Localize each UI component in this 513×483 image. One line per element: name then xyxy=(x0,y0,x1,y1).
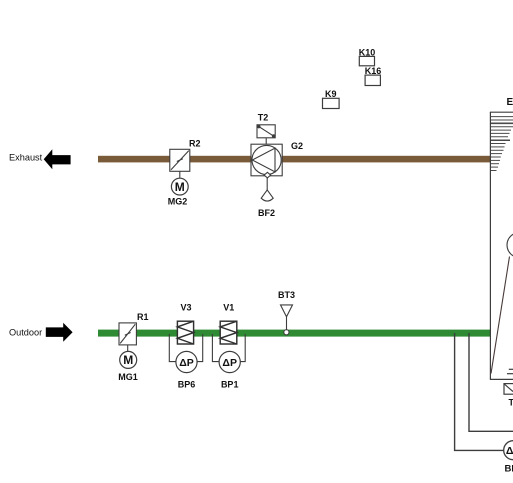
svg-text:ΔP: ΔP xyxy=(222,357,237,369)
svg-text:R2: R2 xyxy=(189,139,201,149)
svg-text:G2: G2 xyxy=(291,141,303,151)
svg-text:K9: K9 xyxy=(325,89,337,99)
rotor circle xyxy=(507,233,513,258)
wire duct tap left of V1 xyxy=(212,334,219,362)
svg-text:R1: R1 xyxy=(137,312,149,322)
svg-text:E: E xyxy=(507,97,513,108)
svg-text:T: T xyxy=(509,397,513,407)
svg-text:MG1: MG1 xyxy=(118,372,138,382)
svg-text:Outdoor: Outdoor xyxy=(9,328,42,338)
pressure sensor BP (cut off) xyxy=(504,441,513,460)
svg-text:K16: K16 xyxy=(365,66,382,76)
svg-text:T2: T2 xyxy=(258,113,269,123)
wire T2 to G2 xyxy=(265,138,267,144)
svg-text:Exhaust: Exhaust xyxy=(9,153,43,163)
wire duct tap right of V1 xyxy=(240,334,245,362)
damper R2 xyxy=(170,149,190,171)
fan G2 xyxy=(251,144,282,176)
exhaust duct (brown) xyxy=(98,156,491,163)
rotor belt wire xyxy=(491,257,510,374)
svg-text:M: M xyxy=(123,353,133,367)
heat exchanger matrix fins xyxy=(491,117,513,171)
relay K10 xyxy=(359,56,374,65)
temperature sensor BT3 xyxy=(281,305,293,335)
svg-text:M: M xyxy=(175,180,185,194)
wire from supply duct down (right) xyxy=(469,333,513,431)
svg-text:BP1: BP1 xyxy=(221,380,239,390)
svg-text:K10: K10 xyxy=(359,47,376,57)
svg-text:BT3: BT3 xyxy=(278,290,295,300)
svg-text:BF2: BF2 xyxy=(258,208,275,218)
damper R1 xyxy=(119,323,136,345)
wire R1 to MG1 xyxy=(127,345,129,351)
sensor box T (cut off) xyxy=(504,384,513,395)
svg-text:MG2: MG2 xyxy=(168,197,188,207)
svg-text:ΔP: ΔP xyxy=(179,357,194,369)
wire duct tap right of V3 xyxy=(197,334,203,362)
flow sensor BF2 xyxy=(261,172,273,201)
dashes right of exchanger bottom xyxy=(509,368,513,370)
motor MG1 xyxy=(120,351,137,368)
svg-text:V1: V1 xyxy=(223,302,234,312)
svg-text:BP6: BP6 xyxy=(178,380,196,390)
wire from supply duct down (left) xyxy=(455,333,504,450)
svg-text:BP: BP xyxy=(505,463,513,474)
outdoor direction arrow xyxy=(46,323,73,342)
rotary heat exchanger body xyxy=(490,112,513,379)
filter V3 xyxy=(177,321,193,344)
svg-text:ΔP: ΔP xyxy=(506,445,513,457)
pressure sensor BP6 xyxy=(176,351,197,372)
relay K9 xyxy=(323,98,340,108)
motor MG2 xyxy=(171,178,188,195)
exhaust direction arrow xyxy=(44,149,71,169)
wire R2 to MG2 xyxy=(179,171,181,178)
supply duct (green) xyxy=(98,330,491,337)
filter V1 xyxy=(220,321,237,344)
relay K16 xyxy=(365,75,380,85)
temperature sensor T2 xyxy=(257,125,275,138)
svg-text:V3: V3 xyxy=(180,302,191,312)
wire duct tap left of V3 xyxy=(169,334,176,362)
pressure sensor BP1 xyxy=(219,351,240,372)
